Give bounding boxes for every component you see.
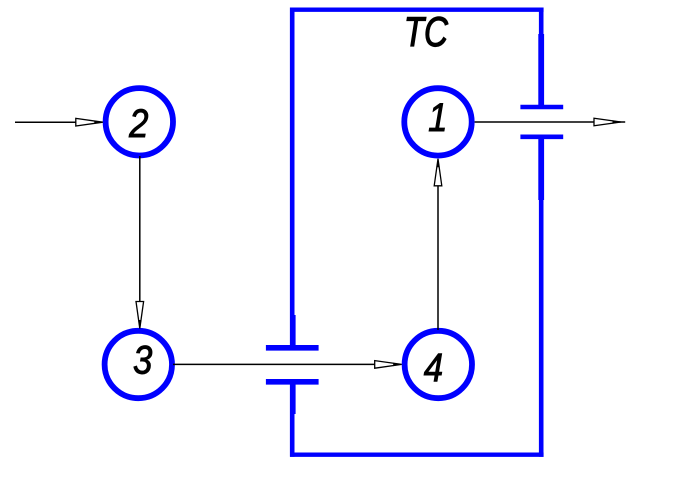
- system boundary box TC (top edge): [290, 8, 544, 12]
- svg-text:4: 4: [424, 345, 443, 390]
- wire node 4 to node 1: [437, 161, 439, 330]
- capacitor-style port symbol P1 stub (left wall, lower lead): [290, 382, 296, 414]
- wire node 2 to node 3: [139, 156, 141, 326]
- capacitor-style port symbol P1 top plate (left wall): [266, 345, 319, 351]
- system boundary box TC (bottom edge): [290, 453, 544, 457]
- capacitor-style port symbol P1 stub (left wall, upper lead): [290, 315, 296, 348]
- capacitor-style port symbol P1 bottom plate (left wall): [266, 379, 319, 385]
- svg-text:TC: TC: [404, 9, 449, 55]
- node circle 4: [405, 331, 472, 398]
- system boundary box TC (left wall upper segment): [290, 8, 295, 349]
- node circle 3: [105, 331, 172, 398]
- wire node 3 to node 4: [173, 363, 399, 365]
- arrowhead at output (pointing right): [594, 118, 621, 126]
- svg-text:1: 1: [428, 95, 447, 140]
- system boundary box TC (right wall upper segment): [539, 8, 544, 108]
- system boundary box TC (right wall lower segment): [539, 137, 544, 457]
- node circle 2: [106, 88, 173, 155]
- node circle 1: [404, 88, 471, 155]
- arrowhead at node 3 (pointing down): [136, 302, 144, 329]
- capacitor-style port symbol P2 top plate (right wall): [520, 105, 563, 110]
- arrowhead at node 1 (pointing up): [434, 159, 442, 186]
- capacitor-style port symbol P2 stub (right wall, lower lead): [538, 137, 544, 200]
- wire input into node 2: [15, 121, 100, 123]
- capacitor-style port symbol P2 bottom plate (right wall): [520, 135, 563, 140]
- system boundary box TC (left wall lower segment): [290, 379, 295, 457]
- arrowhead at node 4 (pointing right): [375, 361, 402, 369]
- arrowhead at node 2 input: [76, 118, 103, 126]
- svg-text:3: 3: [133, 337, 152, 382]
- wire output from node 1: [475, 121, 626, 123]
- svg-text:2: 2: [128, 101, 148, 146]
- capacitor-style port symbol P2 stub (right wall, upper lead): [538, 34, 544, 107]
